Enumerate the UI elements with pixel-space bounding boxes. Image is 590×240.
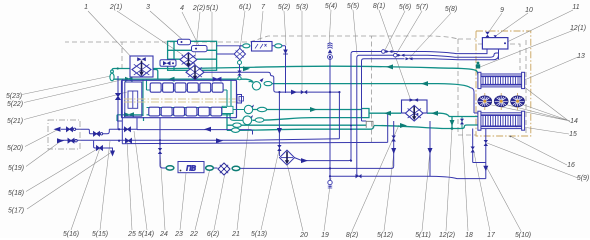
arrows on pipes (teal) bbox=[124, 64, 455, 128]
svg-text:25: 25 bbox=[127, 231, 136, 238]
svg-text:12(2): 12(2) bbox=[439, 232, 455, 238]
wire: enclosure bottom left bbox=[117, 120, 122, 122]
wire: relief valve drop x330 bbox=[329, 57, 331, 180]
cylinders top row bbox=[150, 83, 223, 92]
engine 19 block bbox=[122, 80, 244, 117]
diamond 2(1) bbox=[180, 53, 197, 68]
wire: vertical x361.5 down bbox=[362, 61, 367, 121]
engine front housing bbox=[125, 82, 142, 116]
svg-text:4: 4 bbox=[180, 5, 184, 12]
junction dots bbox=[118, 91, 352, 177]
dash-dot box around intake valves bbox=[48, 120, 80, 149]
svg-text:6(1): 6(1) bbox=[239, 4, 251, 11]
svg-text:8(1): 8(1) bbox=[373, 3, 385, 10]
valve on x118 vertical bbox=[116, 94, 120, 100]
wire: teal box right of line1 bbox=[362, 109, 370, 118]
svg-text:21: 21 bbox=[231, 231, 240, 238]
valve row2 bowtie bbox=[68, 139, 74, 143]
heater unit housing (items 3,4) bbox=[168, 41, 217, 70]
svg-text:5(5): 5(5) bbox=[347, 3, 359, 10]
wire: line y113 box to diamond 8(1) bbox=[369, 112, 401, 114]
wire: row2 bbox=[60, 139, 340, 141]
pump 5(22) teal riser pump bbox=[110, 67, 119, 80]
valve box left of 2(1) bbox=[160, 60, 176, 67]
box 4 bbox=[192, 46, 208, 52]
check valve 5(2) bbox=[283, 50, 288, 55]
wire: x393.7 drop from 8(1) bbox=[393, 121, 395, 166]
drain fitting at x330 bbox=[328, 180, 332, 188]
svg-text:5(6): 5(6) bbox=[399, 4, 411, 11]
svg-text:5(9): 5(9) bbox=[577, 175, 589, 182]
diamond 6(2) bbox=[218, 163, 230, 175]
valve 5(1) on return line bbox=[213, 77, 221, 81]
bypass frame component near 8(1) bbox=[366, 121, 373, 128]
valve 5(20) row1 arrow+bowtie bbox=[59, 127, 62, 132]
engine output flange bbox=[237, 95, 242, 104]
valve 17 bbox=[471, 147, 475, 153]
wire: bottom drain bus y176 bbox=[330, 176, 486, 178]
svg-text:5(10): 5(10) bbox=[515, 232, 531, 238]
radiator 15/16 (bottom) bbox=[478, 111, 525, 137]
wire: engine jacket right drop bbox=[227, 80, 244, 121]
system boundary dashed bbox=[65, 36, 526, 143]
wire: radiator feed elbow x474 bbox=[471, 88, 478, 113]
svg-text:23: 23 bbox=[174, 231, 183, 238]
wire: vertical x279.4 bbox=[278, 92, 280, 156]
wire: vertical x356.8 down bbox=[357, 58, 360, 177]
wire: row1 right to engine bbox=[137, 118, 253, 135]
valve 5(12) on x393 drop bbox=[392, 136, 396, 142]
valves cluster dashed box rows bbox=[59, 94, 132, 151]
wire: loop from diamond 2(2) right vertex y70 bbox=[204, 72, 286, 92]
valve 18 bowtie on bypass stub bbox=[460, 119, 464, 125]
svg-text:5(4): 5(4) bbox=[325, 3, 337, 10]
svg-text:5(11): 5(11) bbox=[415, 232, 431, 238]
pump ellipse left of box 7 bbox=[243, 44, 250, 48]
radiator 13 (top) bbox=[478, 72, 525, 88]
svg-text:5(13): 5(13) bbox=[251, 231, 267, 238]
svg-text:14: 14 bbox=[570, 118, 578, 125]
wire: coolant line A y68 cooler to radiator bbox=[150, 66, 478, 74]
svg-text:3: 3 bbox=[146, 4, 150, 11]
svg-text:1: 1 bbox=[84, 4, 88, 11]
wire: return line y79.2 engine jacket to pump bbox=[115, 79, 254, 82]
wire: drain line y92 bbox=[286, 92, 340, 139]
pump 22: circulation pump on return line bbox=[249, 78, 272, 90]
wire: cooler outlet drop x158 bbox=[153, 70, 158, 80]
valve on branch y148 bbox=[97, 146, 103, 150]
wire: bundle line a bbox=[351, 49, 487, 54]
svg-text:5(15): 5(15) bbox=[92, 231, 108, 238]
valve 12(2) teal junction dot bbox=[451, 127, 454, 130]
wire: teal line1 y109.5 bbox=[253, 109, 362, 111]
cylinders bottom row bbox=[149, 107, 222, 116]
svg-text:ПВ: ПВ bbox=[186, 165, 196, 172]
box 7 (gauge) bbox=[252, 42, 273, 52]
svg-text:5(14): 5(14) bbox=[138, 231, 154, 238]
wire: bundle line c bbox=[362, 55, 499, 61]
svg-text:7: 7 bbox=[261, 4, 266, 11]
engine water pumps 21 bbox=[232, 105, 267, 133]
svg-text:5(19): 5(19) bbox=[8, 165, 24, 172]
svg-text:17: 17 bbox=[487, 232, 496, 238]
svg-text:2(2): 2(2) bbox=[192, 5, 205, 12]
engine centerline dash-dot beige bbox=[124, 99, 236, 102]
svg-text:5(17): 5(17) bbox=[8, 208, 24, 215]
wire: vertical x351 down bbox=[350, 54, 352, 159]
arrows on pipes (blue) bbox=[54, 90, 489, 172]
PV heater box 23 bbox=[166, 162, 240, 173]
svg-text:5(21): 5(21) bbox=[7, 118, 23, 125]
valves mid row1 bbox=[94, 132, 100, 136]
svg-text:5(1): 5(1) bbox=[206, 5, 218, 12]
fan shroud housing dash-dot (tan) bbox=[476, 31, 531, 136]
svg-text:2(1): 2(1) bbox=[109, 4, 122, 11]
relief valve 5(4) bbox=[327, 43, 332, 60]
valves 5(6), 5(7), 5(8) on filler bundle bbox=[382, 50, 413, 61]
wire: pump feeds bbox=[227, 114, 233, 131]
valve on bus y173.5 bbox=[356, 174, 362, 178]
fitting 12(1) on teal at radiator inlet bbox=[476, 62, 480, 69]
diamond 20 bbox=[280, 150, 295, 165]
svg-text:22: 22 bbox=[189, 231, 198, 238]
wire: diamond20 out to x352 bbox=[295, 158, 352, 161]
pump ellipse right of box 7 bbox=[275, 44, 282, 48]
wire: row1 bbox=[61, 129, 137, 134]
cooler 1 (water-water heat exchanger) bbox=[130, 56, 153, 77]
wire: PV chain bbox=[160, 118, 394, 168]
wire: teal line2 y118 bbox=[253, 118, 362, 121]
wire: row2 drain branch bbox=[94, 141, 113, 151]
svg-text:11: 11 bbox=[572, 4, 579, 11]
svg-text:5(23): 5(23) bbox=[6, 93, 22, 100]
svg-text:5(8): 5(8) bbox=[445, 6, 457, 13]
wire: check valve 5(2) drop bbox=[285, 46, 287, 93]
heat exchanger 8(1) bbox=[402, 98, 428, 121]
wire: outlet manifold box bbox=[222, 106, 233, 113]
wire: bundle line b bbox=[357, 49, 499, 58]
svg-text:5(16): 5(16) bbox=[63, 231, 79, 238]
wire: valve 17 drop x472.7 bbox=[473, 129, 486, 163]
wire: engine jacket top bbox=[143, 79, 227, 116]
wire: tank outlet left bbox=[487, 49, 499, 59]
valve 24 vertical on x160 bbox=[158, 148, 162, 154]
svg-text:5(2): 5(2) bbox=[278, 4, 290, 11]
fans 14 bbox=[485, 93, 518, 110]
valve chain 5(3) below diamond 6(1) bbox=[237, 61, 241, 80]
wire: teal riser left x112 bbox=[112, 69, 150, 80]
svg-text:5(12): 5(12) bbox=[377, 232, 393, 238]
svg-text:12(1): 12(1) bbox=[570, 25, 586, 32]
box 3 bbox=[178, 39, 191, 44]
svg-text:5(22): 5(22) bbox=[7, 101, 23, 108]
svg-text:5(7): 5(7) bbox=[416, 4, 428, 11]
svg-text:24: 24 bbox=[159, 231, 168, 238]
svg-text:5(20): 5(20) bbox=[7, 145, 23, 152]
svg-text:15: 15 bbox=[569, 131, 577, 138]
svg-text:10: 10 bbox=[525, 7, 533, 14]
wire: x430 drop bbox=[429, 121, 431, 176]
valves at x126 row1 bbox=[125, 127, 131, 131]
wire: teal line4 y131 bbox=[232, 126, 374, 131]
diamond 2(2) bbox=[186, 65, 204, 80]
valve 5(13) on x279 bbox=[277, 145, 281, 151]
svg-text:18: 18 bbox=[465, 232, 473, 238]
svg-text:8(2): 8(2) bbox=[346, 232, 358, 238]
diamond 6(1) bbox=[217, 46, 246, 61]
valve 5(9) bbox=[484, 140, 488, 146]
wire: engine left verticals bbox=[118, 76, 388, 144]
valve row2 at x127 bbox=[126, 139, 132, 143]
svg-text:5(3): 5(3) bbox=[296, 4, 308, 11]
wire: teal line3 y125.5 bbox=[233, 117, 478, 129]
wire: radiator drain x485.8 bbox=[485, 129, 487, 179]
svg-text:5(18): 5(18) bbox=[8, 190, 24, 197]
svg-text:9: 9 bbox=[500, 7, 504, 14]
svg-text:19: 19 bbox=[321, 232, 329, 238]
svg-text:13: 13 bbox=[577, 53, 585, 60]
wire: engine jacket bottom bbox=[117, 108, 231, 122]
svg-text:20: 20 bbox=[299, 232, 308, 238]
wire: bypass stub x461.5 bbox=[461, 117, 463, 129]
svg-text:16: 16 bbox=[567, 162, 575, 169]
svg-text:6(2): 6(2) bbox=[207, 231, 219, 238]
expansion tank 11 bbox=[482, 32, 508, 49]
